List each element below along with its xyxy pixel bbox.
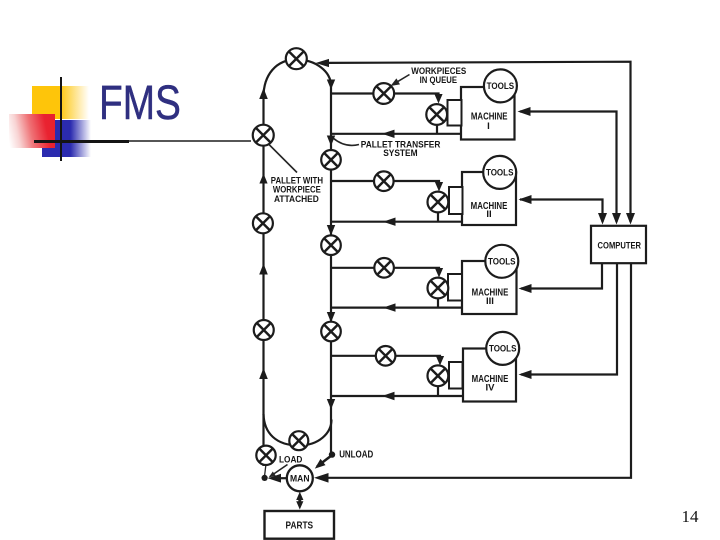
svg-text:III: III xyxy=(486,296,494,307)
svg-text:ATTACHED: ATTACHED xyxy=(274,194,319,205)
svg-text:LOAD: LOAD xyxy=(279,454,303,464)
svg-text:TOOLS: TOOLS xyxy=(488,257,516,268)
svg-text:COMPUTER: COMPUTER xyxy=(598,241,642,251)
svg-text:TOOLS: TOOLS xyxy=(486,168,514,179)
svg-text:MAN: MAN xyxy=(290,474,310,485)
svg-text:SYSTEM: SYSTEM xyxy=(383,148,417,159)
svg-text:II: II xyxy=(486,209,491,220)
svg-text:TOOLS: TOOLS xyxy=(489,344,517,355)
svg-text:I: I xyxy=(487,121,490,132)
svg-text:TOOLS: TOOLS xyxy=(487,81,515,92)
svg-text:UNLOAD: UNLOAD xyxy=(339,450,373,461)
svg-text:IN QUEUE: IN QUEUE xyxy=(420,75,457,86)
svg-text:IV: IV xyxy=(486,382,496,393)
svg-text:PARTS: PARTS xyxy=(286,521,314,532)
